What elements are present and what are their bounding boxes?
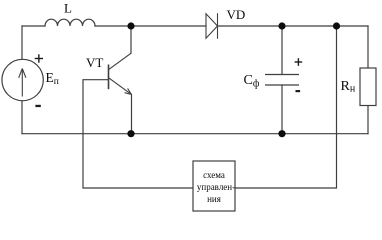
inductor L (winding) (45, 19, 95, 26)
wire top rail: inductor to diode anode (95, 25, 206, 27)
wire collector lead from node to transistor (130, 26, 132, 53)
capacitor plus sign (295, 58, 303, 66)
base bar (108, 65, 110, 90)
wire top rail: diode cathode to right corner (218, 25, 369, 27)
svg-text:управлен-: управлен- (197, 182, 235, 192)
source minus sign (35, 105, 40, 107)
source plus sign (35, 54, 43, 62)
resistor Rн (load) (360, 68, 376, 106)
wire right branch: resistor bottom to bottom rail (367, 106, 369, 134)
capacitor Сф plates (265, 75, 299, 86)
voltage source arrow (19, 69, 26, 97)
node: emitter/bottom-rail junction (127, 130, 134, 137)
voltage source E_п (circle) (2, 59, 43, 100)
node: capacitor bottom junction (278, 130, 285, 137)
wire emitter lead from transistor to bottom rail (131, 95, 133, 134)
svg-text:Cф: Cф (244, 73, 260, 90)
node: feedback tap junction (333, 22, 340, 29)
svg-text:L: L (64, 1, 72, 16)
wire left branch: top corner down to source top (21, 26, 23, 60)
wire bottom rail (22, 133, 368, 135)
svg-text:Rн: Rн (341, 79, 356, 95)
control box (схема управления) (193, 161, 235, 211)
wire feedback: from output node down (crossing bottom rail) and left to control box (235, 26, 337, 188)
wire right branch: top corner down to resistor top (367, 26, 369, 68)
svg-text:Eп: Eп (46, 70, 59, 87)
node: capacitor top junction (278, 22, 285, 29)
wire top rail left segment (22, 25, 45, 27)
collector diagonal (109, 53, 132, 70)
wire left branch: source bottom down to bottom rail (21, 101, 23, 134)
svg-text:ния: ния (207, 194, 221, 204)
emitter arrowhead (125, 88, 132, 94)
wire base drive: from base left, down and right to control box (83, 80, 193, 188)
transistor VT (NPN) (109, 53, 132, 94)
node: inductor/collector junction (127, 22, 134, 29)
svg-text:VD: VD (227, 7, 246, 22)
svg-text:VT: VT (86, 55, 103, 70)
wire capacitor top lead (281, 26, 283, 75)
diode VD (206, 13, 218, 39)
control box text (197, 170, 235, 204)
diode cathode bar (217, 13, 219, 39)
capacitor minus sign (296, 90, 301, 92)
svg-text:схема: схема (203, 170, 225, 180)
diode triangle (anode) (206, 14, 218, 38)
wire capacitor bottom lead (281, 85, 283, 134)
emitter diagonal (109, 78, 132, 95)
